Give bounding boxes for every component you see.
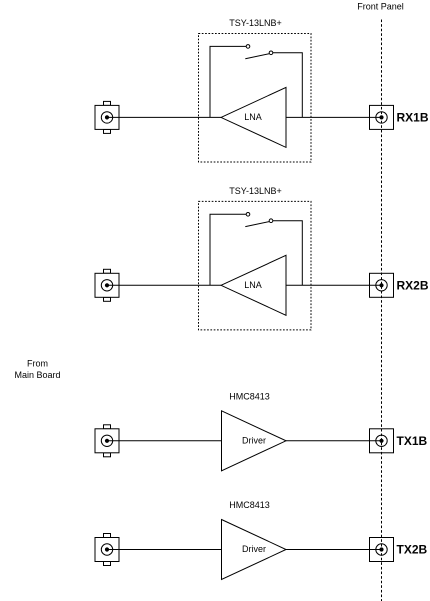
connector J2 RX2B (coax, to main board) [95, 269, 119, 301]
switch SW contact right [269, 51, 273, 55]
module TSY-13LNB+ dashed enclosure (RX2B path) [199, 201, 312, 330]
svg-text:HMC8413: HMC8413 [229, 391, 270, 401]
svg-text:TSY-13LNB+: TSY-13LNB+ [229, 186, 281, 196]
svg-text:RX2B: RX2B [397, 279, 429, 293]
svg-text:Main Board: Main Board [14, 370, 60, 380]
svg-text:From: From [27, 358, 48, 368]
wire bypass right (input side riser) [273, 221, 303, 286]
module TSY-13LNB+ dashed enclosure (RX1B path) [199, 34, 312, 163]
wire RX2B input (front-panel connector to LNA) [286, 284, 382, 286]
svg-text:TSY-13LNB+: TSY-13LNB+ [229, 18, 281, 28]
svg-text:Front Panel: Front Panel [357, 2, 404, 12]
connector J5 RX1B (coax, front panel) [370, 105, 394, 129]
wire bypass left (output side riser) [210, 214, 246, 285]
op-amp LNA (amplifier, points left) [221, 255, 286, 315]
switch SW arm (open) [245, 54, 269, 59]
front panel boundary (dashed line) [381, 20, 383, 601]
op-amp Driver (amplifier, points right) [222, 411, 287, 471]
switch SW contact right [269, 219, 273, 223]
svg-text:LNA: LNA [244, 112, 262, 122]
svg-text:RX1B: RX1B [397, 111, 429, 125]
svg-text:HMC8413: HMC8413 [229, 500, 270, 510]
svg-text:LNA: LNA [244, 280, 262, 290]
op-amp LNA (amplifier, points left) [221, 87, 286, 147]
wire RX1B output (LNA to main-board connector) [107, 116, 221, 118]
wire bypass right (input side riser) [273, 53, 303, 118]
svg-text:TX1B: TX1B [397, 434, 428, 448]
connector J1 RX1B (coax, to main board) [95, 101, 119, 133]
connector J7 TX1B (coax, front panel) [370, 429, 394, 453]
wire TX2B output (driver to front-panel connector) [286, 549, 382, 551]
wire bypass left (output side riser) [210, 46, 246, 117]
switch SW contact left [246, 45, 250, 49]
connector J3 TX1B (coax, to main board) [95, 425, 119, 457]
switch SW contact left [246, 213, 250, 217]
svg-text:Driver: Driver [242, 544, 266, 554]
wire TX2B input (main-board connector to driver) [107, 549, 222, 551]
wire TX1B output (driver to front-panel connector) [286, 440, 382, 442]
op-amp Driver (amplifier, points right) [222, 520, 287, 580]
svg-text:TX2B: TX2B [397, 543, 428, 557]
svg-text:Driver: Driver [242, 435, 266, 445]
wire TX1B input (main-board connector to driver) [107, 440, 222, 442]
connector J6 RX2B (coax, front panel) [370, 273, 394, 297]
wire RX2B output (LNA to main-board connector) [107, 284, 221, 286]
connector J4 TX2B (coax, to main board) [95, 534, 119, 566]
wire RX1B input (front-panel connector to LNA) [286, 116, 382, 118]
connector J8 TX2B (coax, front panel) [370, 538, 394, 562]
switch SW arm (open) [245, 222, 269, 227]
